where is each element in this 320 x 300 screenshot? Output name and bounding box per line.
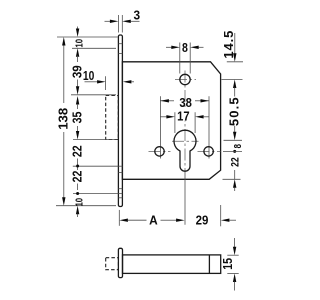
left ext line cylinder center xyxy=(73,139,117,141)
svg-text:15: 15 xyxy=(220,258,235,270)
lock case body xyxy=(122,62,220,180)
dim 17 ext lines xyxy=(175,112,195,133)
svg-text:29: 29 xyxy=(196,213,209,228)
svg-text:10: 10 xyxy=(83,68,95,84)
ext line side-hole center right xyxy=(223,150,242,152)
left ext line top screw xyxy=(72,47,116,49)
chain line segment xyxy=(77,184,79,191)
dim 38 arrows xyxy=(160,99,169,102)
left ext line bottom screw xyxy=(73,193,122,195)
chain line segment xyxy=(77,159,79,171)
svg-text:10: 10 xyxy=(74,39,85,48)
faceplate screw mark bottom xyxy=(118,189,122,198)
ext line faceplate left bottom xyxy=(118,210,120,226)
svg-text:17: 17 xyxy=(177,109,190,124)
side hole right xyxy=(204,147,213,156)
dim 29 outside arrow xyxy=(221,219,230,222)
vertical centerline through holes xyxy=(184,71,186,172)
svg-text:22: 22 xyxy=(69,145,84,157)
svg-text:10: 10 xyxy=(73,198,84,207)
chain dot xyxy=(76,192,79,195)
side hole left xyxy=(155,147,164,156)
left ext line faceplate bottom xyxy=(56,205,116,207)
faceplate screw mark top xyxy=(118,44,122,54)
bottom view: dashed housing xyxy=(106,258,119,270)
bottom view: bar end cap line xyxy=(208,255,210,274)
dim 14.5 ext line xyxy=(227,61,243,63)
dashed housing behind faceplate xyxy=(106,96,119,140)
dim 3 arrows xyxy=(105,20,111,22)
svg-text:50.5: 50.5 xyxy=(227,96,242,126)
dim 138 arrows xyxy=(62,37,65,46)
svg-text:22: 22 xyxy=(69,170,84,182)
svg-text:14.5: 14.5 xyxy=(221,30,236,59)
dim 8 top arrows xyxy=(166,46,172,48)
bottom view: faceplate end xyxy=(118,248,122,277)
dim 10 horizontal ext line xyxy=(105,76,107,90)
faceplate screw mark middle xyxy=(118,166,122,172)
dim 3 ext lines xyxy=(118,15,122,33)
dim 15 arrows xyxy=(234,238,236,247)
ext line body bottom right xyxy=(223,178,241,180)
cylinder centerline horizontal xyxy=(172,140,199,142)
side hole centerline left xyxy=(149,150,171,152)
top hole centerline horizontal xyxy=(175,79,196,81)
ext line cylinder center right xyxy=(224,139,243,141)
dim 35 top arrow xyxy=(76,96,79,105)
svg-text:8: 8 xyxy=(232,144,243,148)
left ext line mid xyxy=(73,165,119,167)
ext line body right bottom xyxy=(220,205,222,226)
dim 17 arrows xyxy=(160,116,167,118)
dim 22 right line segment xyxy=(234,170,236,179)
dim 39 top arrow xyxy=(76,48,79,57)
svg-text:3: 3 xyxy=(133,8,140,23)
svg-text:138: 138 xyxy=(56,108,71,130)
faceplate (edge view) xyxy=(118,35,122,207)
svg-text:22: 22 xyxy=(229,157,241,167)
dim 17 label xyxy=(177,109,191,121)
dim 38 line xyxy=(160,100,174,102)
dim A arrows and line xyxy=(119,219,128,222)
chain dot xyxy=(76,165,79,168)
dim 10 top-left arrows xyxy=(77,27,79,30)
dim 35 bottom arrow xyxy=(77,126,79,132)
dim 39 bottom arrow xyxy=(77,80,79,87)
euro profile cylinder hole xyxy=(174,130,196,171)
svg-text:A: A xyxy=(149,213,158,228)
dim 50.5 lower arrow xyxy=(234,126,236,132)
left ext line housing top xyxy=(71,94,116,96)
right chain dim line upper arrow at hole center xyxy=(222,79,243,81)
dim 10 horizontal arrows xyxy=(85,81,98,83)
side hole vertical centerline left / ext of dim 38 xyxy=(159,96,161,158)
dot at side-hole center ext xyxy=(233,150,236,153)
dim 22 right bottom arrow xyxy=(233,179,236,188)
bottom view: lock case bar xyxy=(123,255,221,274)
dim 14.5 line and arrow xyxy=(234,33,236,54)
top hole xyxy=(180,74,190,84)
dim 15 ext ticks xyxy=(227,255,238,273)
svg-text:35: 35 xyxy=(69,111,84,123)
svg-text:8: 8 xyxy=(182,40,188,55)
dim 138 line xyxy=(63,42,65,103)
dim 8 top ext lines xyxy=(180,43,190,74)
side hole vertical centerline right / ext of dim 38 xyxy=(208,96,210,158)
left ext line faceplate top xyxy=(57,36,118,38)
side hole centerline right xyxy=(198,150,221,152)
dim 10 bottom arrow xyxy=(76,206,79,215)
